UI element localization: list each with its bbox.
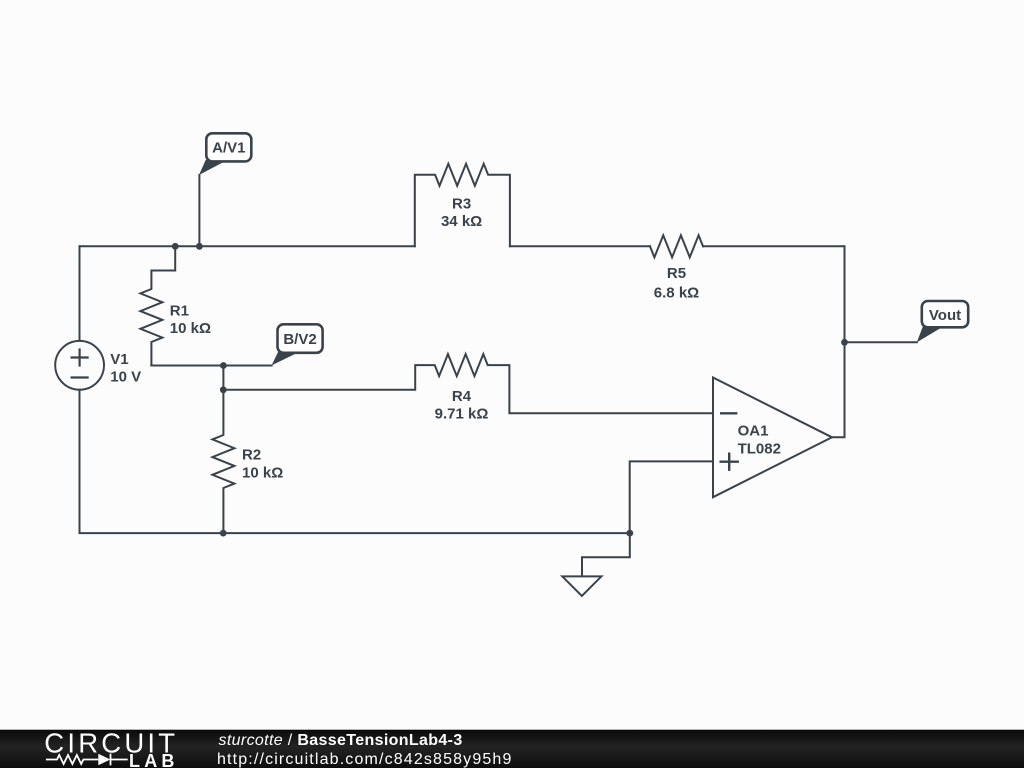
svg-text:10 V: 10 V <box>110 369 141 386</box>
logo resistor+diode glyph <box>46 754 128 766</box>
wire top horizontal middle segment <box>510 245 650 247</box>
wire top horizontal left segment <box>80 245 415 247</box>
node label Vout <box>917 301 968 342</box>
resistor R1 <box>140 246 175 365</box>
svg-text:sturcotte / BasseTensionLab4-3: sturcotte / BasseTensionLab4-3 <box>219 732 463 749</box>
svg-text:R2: R2 <box>242 447 261 464</box>
op-amp minus symbol <box>721 412 736 414</box>
wire op-amp plus input <box>630 461 713 533</box>
wire ground stub <box>582 533 630 576</box>
svg-text:LAB: LAB <box>129 751 179 768</box>
svg-text:Vout: Vout <box>929 307 961 324</box>
node junction dots <box>172 243 848 537</box>
resistor R3 <box>415 164 510 247</box>
svg-text:R1: R1 <box>170 303 189 320</box>
op-amp plus symbol <box>721 454 738 470</box>
wire A/V1 drop <box>198 175 200 246</box>
svg-text:10 kΩ: 10 kΩ <box>170 320 211 337</box>
resistor R2 <box>212 366 234 534</box>
resistor R5 <box>650 235 703 257</box>
ground <box>562 576 601 596</box>
resistor R4 <box>223 354 713 413</box>
voltage source V1 <box>55 341 104 390</box>
svg-text:34 kΩ: 34 kΩ <box>441 213 482 230</box>
svg-text:6.8 kΩ: 6.8 kΩ <box>654 285 699 302</box>
component name/value texts <box>110 196 781 482</box>
svg-text:R3: R3 <box>452 196 471 213</box>
svg-text:R5: R5 <box>667 265 686 282</box>
node label A/V1 <box>199 133 251 175</box>
svg-text:R4: R4 <box>452 388 472 405</box>
op-amp U1 triangle <box>713 378 832 498</box>
svg-text:OA1: OA1 <box>738 423 769 440</box>
svg-text:V1: V1 <box>110 351 128 368</box>
CircuitLab logo wordmark <box>44 727 178 768</box>
svg-text:http://circuitlab.com/c842s858: http://circuitlab.com/c842s858y95h9 <box>217 751 513 768</box>
svg-text:9.71 kΩ: 9.71 kΩ <box>435 406 489 423</box>
wire Vout stub <box>845 341 917 343</box>
node label B/V2 <box>272 324 323 365</box>
wire R1 bottom to B/V2 <box>151 365 271 367</box>
svg-text:TL082: TL082 <box>738 441 781 458</box>
wire left vertical to V1 top <box>79 246 81 341</box>
svg-text:B/V2: B/V2 <box>283 331 316 348</box>
wire V1 bottom to ground rail <box>80 390 630 533</box>
wire top horizontal right segment and right drop to op-amp output <box>703 246 845 437</box>
svg-text:A/V1: A/V1 <box>212 140 245 157</box>
svg-text:10 kΩ: 10 kΩ <box>242 465 283 482</box>
